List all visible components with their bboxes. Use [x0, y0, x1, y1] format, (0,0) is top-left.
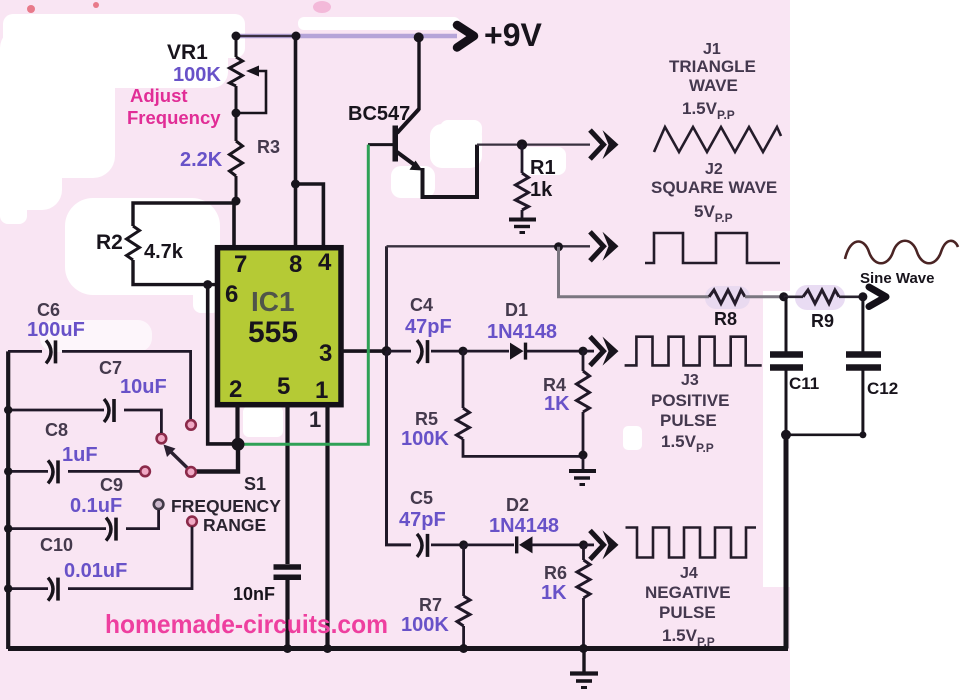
wire pin6 branch down to pin2 node [208, 285, 238, 444]
capacitor 10nF on pin5 [274, 567, 302, 649]
svg-text:WAVE: WAVE [689, 76, 738, 95]
svg-text:TRIANGLE: TRIANGLE [669, 57, 756, 76]
wire bottom ground bus [8, 646, 788, 651]
svg-text:0.01uF: 0.01uF [64, 560, 127, 582]
svg-text:4: 4 [318, 249, 332, 276]
svg-text:1: 1 [315, 377, 328, 404]
resistor R6 [577, 545, 590, 648]
J3 label block [651, 372, 729, 455]
svg-text:J1: J1 [703, 41, 721, 58]
switch S1 rotor arm [164, 445, 190, 470]
wire green pin2 feedback to BC547 base [242, 145, 368, 445]
output jack J4 arrow [584, 530, 619, 559]
wire pin3 output [341, 349, 387, 353]
svg-text:100K: 100K [401, 614, 449, 636]
wire pin5 riser [285, 405, 289, 565]
resistor R3 [230, 141, 243, 203]
switch S1 contact C10 [187, 517, 197, 527]
svg-text:C7: C7 [99, 358, 122, 378]
svg-text:2.2K: 2.2K [180, 149, 223, 171]
wire J1 triangle output line [477, 143, 590, 145]
svg-text:NEGATIVE: NEGATIVE [645, 583, 731, 602]
switch S1 pivot contact [186, 467, 196, 477]
+9V supply arrow [457, 25, 474, 48]
node C12 bottom junction [859, 431, 866, 438]
ground bottom bus [570, 649, 598, 688]
J3 positive pulse waveform [625, 337, 762, 366]
svg-text:D1: D1 [505, 300, 528, 320]
svg-text:BC547: BC547 [348, 103, 410, 125]
node rail-collector [414, 32, 424, 42]
svg-text:R3: R3 [257, 137, 280, 157]
node R9-C12 junction [858, 292, 867, 301]
svg-text:5: 5 [277, 373, 290, 400]
svg-text:6: 6 [225, 281, 238, 308]
wire sine filter return riser [784, 435, 789, 649]
node bus-C10 [4, 584, 12, 592]
wire left bus [6, 351, 10, 649]
svg-text:homemade-circuits.com: homemade-circuits.com [105, 609, 388, 639]
svg-text:+9V: +9V [484, 17, 542, 53]
node bus-C7 [4, 406, 12, 414]
svg-text:C9: C9 [100, 475, 123, 495]
svg-text:FREQUENCY: FREQUENCY [171, 496, 281, 516]
svg-text:IC1: IC1 [251, 286, 295, 317]
svg-text:C6: C6 [37, 300, 60, 320]
wire C11-C12 bottom join [786, 433, 863, 436]
J1 triangle waveform [654, 127, 781, 152]
switch S1 contact C9 [154, 500, 164, 510]
svg-text:S1: S1 [244, 474, 266, 494]
wire J2 square output line [387, 245, 591, 247]
svg-text:0.1uF: 0.1uF [70, 495, 122, 517]
svg-text:555: 555 [248, 316, 298, 349]
svg-text:VR1: VR1 [167, 41, 208, 64]
node pin3 junction [382, 346, 392, 356]
wire R8 to node [745, 295, 784, 298]
capacitor C9 with wiring [8, 510, 159, 541]
svg-text:R1: R1 [530, 157, 556, 179]
potentiometer VR1 [230, 36, 267, 141]
node pin8-pin4 junction [291, 180, 300, 189]
node pin2 green junction [232, 438, 245, 451]
capacitor C5 [417, 534, 464, 557]
wire C5 branch riser [387, 351, 412, 545]
ground under R1 [509, 220, 536, 233]
node R1 top junction [517, 139, 527, 149]
node C5-D2 junction [459, 540, 468, 549]
svg-text:C4: C4 [410, 295, 433, 315]
wire pin2 riser [235, 405, 239, 445]
wire pin4 riser with jog [296, 184, 324, 249]
resistor R4 [577, 351, 590, 454]
resistor R7 [457, 545, 470, 648]
resistor R8 [709, 290, 745, 304]
node R8-R9-C11 junction [779, 292, 788, 301]
node pin6-branch junction [203, 280, 212, 289]
svg-text:SQUARE WAVE: SQUARE WAVE [651, 178, 777, 197]
node R7 bus junction [459, 644, 468, 653]
svg-text:C5: C5 [410, 488, 433, 508]
node R6 bus junction [579, 644, 588, 653]
svg-text:J2: J2 [705, 161, 723, 178]
node C11 bottom junction [781, 430, 791, 440]
resistor R5 [457, 351, 584, 456]
wire switch pivot to pin2 node [196, 447, 238, 472]
svg-text:R4: R4 [543, 375, 566, 395]
svg-text:J3: J3 [681, 372, 699, 389]
node rail-VR1 [232, 32, 241, 41]
capacitor C10 with wiring [8, 527, 192, 601]
svg-text:10nF: 10nF [233, 584, 275, 604]
node rail-pin8 [292, 32, 301, 41]
output jack J1 arrow [590, 130, 619, 159]
svg-text:PULSE: PULSE [660, 411, 717, 430]
svg-text:100K: 100K [401, 428, 449, 450]
svg-text:D2: D2 [506, 495, 529, 515]
svg-text:4.7k: 4.7k [144, 241, 184, 263]
transistor Q1 BC547 [368, 37, 423, 171]
node D1-R4 junction [579, 347, 588, 356]
svg-text:PULSE: PULSE [659, 603, 716, 622]
capacitor C6 with wiring [8, 340, 191, 419]
svg-text:R7: R7 [419, 595, 442, 615]
FREQUENCY RANGE label [171, 496, 281, 535]
svg-text:R5: R5 [415, 409, 438, 429]
capacitor C12 with wiring [846, 297, 881, 435]
resistor R2 with loop wiring [127, 203, 235, 285]
svg-text:47pF: 47pF [405, 316, 452, 338]
capacitor C8 with wiring [8, 460, 140, 483]
switch S1 contact C6 [186, 420, 196, 430]
svg-text:C11: C11 [789, 374, 819, 393]
svg-text:R9: R9 [811, 311, 834, 331]
wire J2 square output riser from pin3 [385, 246, 388, 351]
svg-text:Sine Wave: Sine Wave [860, 270, 934, 287]
sine output arrow [869, 287, 886, 307]
capacitor C11 with wiring [770, 297, 803, 435]
svg-text:100K: 100K [173, 64, 221, 86]
svg-text:Adjust: Adjust [130, 85, 188, 106]
svg-text:RANGE: RANGE [203, 515, 266, 535]
svg-text:10uF: 10uF [120, 376, 167, 398]
svg-text:J4: J4 [680, 565, 698, 582]
capacitor C4 with wiring [387, 340, 464, 363]
annotation Adjust Frequency [127, 85, 221, 128]
svg-text:1uF: 1uF [62, 444, 98, 466]
svg-text:1: 1 [309, 407, 321, 432]
svg-text:R8: R8 [714, 309, 737, 329]
node D2-R6 junction [579, 540, 588, 549]
wire emitter staircase to J1 line [423, 145, 478, 197]
capacitor C7 with wiring [8, 399, 161, 433]
output jack J3 arrow [583, 337, 619, 366]
svg-text:100uF: 100uF [27, 319, 85, 341]
diode D1 [463, 343, 583, 360]
svg-text:C12: C12 [867, 379, 898, 398]
svg-text:1k: 1k [530, 179, 553, 201]
svg-text:C8: C8 [45, 420, 68, 440]
resistor R1 [516, 145, 529, 218]
svg-text:7: 7 [234, 251, 247, 278]
svg-text:1K: 1K [544, 393, 570, 415]
switch S1 contact C8 [140, 467, 150, 477]
J4 label block [645, 565, 731, 649]
svg-text:R6: R6 [544, 563, 567, 583]
svg-text:POSITIVE: POSITIVE [651, 391, 729, 410]
svg-text:47pF: 47pF [399, 509, 446, 531]
wire +9V supply rail [236, 34, 457, 39]
node bus-C9 [4, 524, 12, 532]
J2 square waveform [645, 233, 780, 263]
output jack J2 arrow [590, 232, 619, 261]
node bus-C8 [4, 467, 12, 475]
svg-text:1K: 1K [541, 582, 567, 604]
node J2 sine tap junction [554, 242, 563, 251]
J4 negative pulse waveform [626, 528, 757, 558]
diode D2 [464, 536, 584, 553]
svg-text:C10: C10 [40, 535, 73, 555]
J1 label block [669, 41, 756, 122]
svg-text:1N4148: 1N4148 [487, 321, 557, 343]
wire pin8 riser [294, 36, 298, 249]
svg-text:Frequency: Frequency [127, 107, 221, 128]
svg-text:8: 8 [289, 251, 302, 278]
svg-text:R2: R2 [96, 231, 123, 254]
wire pin7 riser [232, 203, 236, 249]
svg-text:2: 2 [229, 376, 242, 403]
svg-text:1N4148: 1N4148 [489, 515, 559, 537]
switch S1 contact C7 [157, 434, 167, 444]
node R4-R5 ground junction [579, 451, 588, 460]
J2 label block [651, 161, 777, 225]
node R3-pin7 junction [232, 197, 241, 206]
ground under R4 [569, 456, 596, 485]
resistor R9 [784, 290, 864, 304]
node pin5 bus junction [283, 644, 292, 653]
wire gray sine feed from J2 node [559, 247, 710, 297]
node VR1 wiper junction [232, 109, 241, 118]
wire pin1 riser [325, 405, 329, 650]
node pin1 bus junction [323, 644, 332, 653]
node C4-D1 junction [459, 347, 468, 356]
sine waveform [845, 241, 958, 264]
svg-text:3: 3 [319, 340, 332, 367]
op-amp IC1 555 timer box [218, 248, 342, 405]
